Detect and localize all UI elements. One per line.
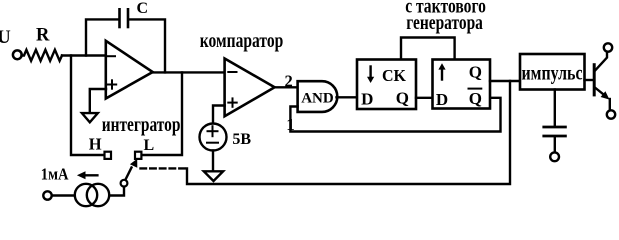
- wire AND output to FF1 D: [337, 96, 359, 98]
- op-amp U1 minus sign: [107, 55, 115, 57]
- wire box to transistor base: [585, 79, 594, 81]
- wire dashed end down to bottom rail: [187, 81, 510, 184]
- voltage source 5В circle: [200, 124, 227, 151]
- transistor emitter with arrow: [596, 88, 605, 95]
- wire AND input 1 loop: [290, 98, 500, 132]
- dashed control line: [141, 167, 188, 169]
- FF1 down arrow: [369, 67, 371, 78]
- svg-text:D: D: [361, 89, 373, 108]
- input terminal circle: [13, 50, 22, 59]
- svg-text:компаратор: компаратор: [200, 30, 283, 52]
- 5В minus sign: [207, 142, 218, 144]
- svg-text:L: L: [144, 137, 155, 154]
- AND gate: [298, 81, 338, 112]
- svg-text:5В: 5В: [232, 131, 251, 148]
- svg-text:импульс: импульс: [522, 60, 583, 84]
- current source I1 circles: [75, 184, 97, 206]
- wire pulse box to capacitor C2: [554, 90, 556, 126]
- svg-text:U: U: [0, 27, 11, 48]
- wire comparator plus to 5V source: [213, 106, 225, 124]
- contact L square: [135, 152, 141, 159]
- wire 5В to ground arrow: [212, 151, 214, 171]
- wire op-amp output to comparator: [153, 71, 225, 73]
- wire comparator output to AND: [275, 86, 298, 88]
- wire FF2 Q to pulse box: [490, 80, 520, 82]
- svg-text:H: H: [89, 135, 102, 154]
- transistor collector: [596, 52, 608, 70]
- contact H square: [105, 152, 112, 159]
- svg-text:1мА: 1мА: [41, 165, 69, 184]
- svg-text:1: 1: [286, 115, 295, 134]
- svg-text:CK: CK: [382, 66, 407, 85]
- svg-text:D: D: [436, 90, 448, 109]
- collector terminal circle: [604, 43, 612, 51]
- capacitor C2 plates: [544, 126, 566, 129]
- svg-text:генератора: генератора: [406, 12, 483, 34]
- ground under integrator: [82, 113, 98, 122]
- svg-text:R: R: [36, 26, 50, 46]
- wire current source to left terminal: [52, 194, 75, 196]
- svg-text:2: 2: [285, 72, 293, 91]
- resistor R: [22, 50, 63, 61]
- emitter terminal circle: [607, 110, 615, 118]
- switch pivot circle: [121, 180, 128, 187]
- flip-flop U3 box: [357, 60, 416, 110]
- op-amp U1 integrator triangle: [106, 41, 153, 99]
- wire output node down to L contact: [143, 72, 183, 155]
- wire pivot to current source: [110, 187, 124, 196]
- svg-text:AND: AND: [301, 91, 334, 107]
- wire op-amp plus input to ground: [90, 89, 106, 112]
- comparator plus sign: [228, 102, 236, 104]
- wire capacitor to output node: [129, 19, 165, 72]
- svg-text:Q: Q: [469, 89, 482, 108]
- comparator U2 triangle: [225, 59, 275, 117]
- op-amp U1 plus sign: [108, 84, 116, 86]
- wire feedback up from input node: [86, 19, 118, 55]
- ground arrow under 5В: [204, 171, 223, 181]
- wire node down to H contact: [71, 56, 104, 156]
- clock bus wires: [401, 38, 455, 60]
- wire FF1 Q to FF2 D: [416, 97, 433, 99]
- svg-text:Q: Q: [396, 89, 409, 108]
- wire input to op-amp minus: [62, 54, 106, 56]
- left terminal circle: [43, 191, 51, 199]
- current direction arrow: [84, 174, 97, 176]
- C2 terminal circle: [550, 152, 559, 161]
- flip-flop U4 box: [433, 60, 491, 109]
- svg-text:C: C: [137, 0, 149, 17]
- FF2 up arrow: [441, 69, 443, 80]
- svg-text:интегратор: интегратор: [102, 114, 181, 136]
- switch arm with arrowhead: [125, 168, 131, 181]
- comparator minus sign: [228, 71, 236, 73]
- 5В plus sign: [208, 130, 218, 132]
- svg-text:Q: Q: [469, 63, 482, 82]
- wire capacitor C2 to terminal: [554, 138, 556, 153]
- transistor Q1 base bar: [593, 65, 596, 95]
- capacitor C plates: [118, 9, 121, 27]
- pulse shaper box импульс: [520, 54, 585, 90]
